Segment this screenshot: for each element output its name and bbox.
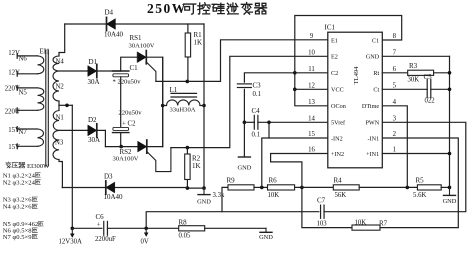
svg-text:56K: 56K xyxy=(335,192,347,199)
wire pin8 top loop xyxy=(295,16,402,106)
svg-text:R4: R4 xyxy=(334,177,343,185)
wire N1/N3 tap to D2 xyxy=(59,129,105,131)
wire RS2 anode wire xyxy=(105,146,162,148)
svg-text:D1: D1 xyxy=(89,58,98,66)
svg-text:0.05: 0.05 xyxy=(179,233,191,240)
wire 0V node up and feedback rail xyxy=(146,212,319,229)
wire R8 right to GND xyxy=(205,227,266,229)
winding N6 bottom tap 12V xyxy=(17,73,37,75)
svg-text:N6: N6 xyxy=(19,56,28,63)
svg-text:-IN2: -IN2 xyxy=(331,135,343,142)
capacitor C3 xyxy=(237,83,251,85)
wire R9 branch xyxy=(222,187,228,211)
svg-text:0V: 0V xyxy=(141,239,149,246)
wire RS1 gate to pin9 net xyxy=(156,40,328,82)
capacitor C2 xyxy=(113,127,129,130)
svg-text:GND: GND xyxy=(443,198,457,205)
svg-text:30A: 30A xyxy=(88,136,100,144)
winding N7 top tap 15V xyxy=(17,128,37,130)
winding N7 coil xyxy=(38,129,44,146)
wire battery node to C6 xyxy=(72,227,102,229)
wire center tap down to battery node xyxy=(71,105,73,228)
svg-text:1K: 1K xyxy=(192,162,201,170)
svg-text:Rt: Rt xyxy=(373,70,379,77)
wire pin16 jog to R6/R4 node xyxy=(271,154,328,188)
wire L1 left vertical xyxy=(162,57,164,146)
svg-text:RS1: RS1 xyxy=(130,34,143,42)
svg-text:3: 3 xyxy=(393,116,397,123)
wire R1 bottom xyxy=(187,57,189,81)
wire R1 top xyxy=(187,24,189,33)
capacitor C6 xyxy=(103,221,105,235)
svg-text:5.6K: 5.6K xyxy=(413,192,426,199)
resistor R8 xyxy=(179,226,205,231)
winding N6 top tap 12V xyxy=(17,55,37,57)
svg-text:OCon: OCon xyxy=(331,103,346,110)
resistor R3 xyxy=(408,70,434,75)
svg-text:R6: R6 xyxy=(269,177,278,185)
junction R2 top xyxy=(186,146,190,150)
inductor L1 coil xyxy=(167,100,201,106)
svg-text:7: 7 xyxy=(393,50,397,57)
wire C1 node up to RS1 anode xyxy=(121,57,138,71)
winding N7 bottom tap 15V xyxy=(17,145,37,147)
svg-text:N1: N1 xyxy=(56,115,64,122)
svg-text:022: 022 xyxy=(425,98,436,105)
svg-text:10K: 10K xyxy=(355,220,367,227)
svg-text:N5: N5 xyxy=(19,89,28,96)
svg-text:GND: GND xyxy=(197,199,211,206)
svg-text:12V30A: 12V30A xyxy=(59,238,83,245)
svg-text:2: 2 xyxy=(393,131,397,138)
wire pin7 GND stub xyxy=(382,55,449,57)
wire R2 bottom to GND bus xyxy=(187,187,204,189)
wire C4 left stub xyxy=(244,121,254,123)
capacitor C4 xyxy=(253,115,255,129)
wire pin12 stub xyxy=(295,88,328,90)
svg-text:N4: N4 xyxy=(56,58,65,65)
svg-text:N3 φ3.2×6: N3 φ3.2×6 xyxy=(3,197,32,204)
junction 0V node xyxy=(144,227,148,231)
svg-text:6: 6 xyxy=(393,66,397,73)
junction R9/R6 node xyxy=(260,186,264,190)
wire RS1 cathode down xyxy=(146,57,162,146)
svg-text:C3: C3 xyxy=(253,82,262,90)
junction C5/GND line xyxy=(448,88,452,92)
ground GND right of R8 xyxy=(265,228,267,232)
junction C4 right branch xyxy=(267,121,271,125)
svg-text:C6: C6 xyxy=(96,213,105,221)
op-amp U1 IC1 TL494 box xyxy=(328,32,383,168)
svg-text:12V: 12V xyxy=(8,70,20,77)
svg-text:PWN: PWN xyxy=(365,120,379,127)
svg-text:C7: C7 xyxy=(317,196,326,204)
wire pin15 to R9/R6 node xyxy=(262,138,328,187)
winding N5 coil xyxy=(38,88,44,110)
svg-text:D2: D2 xyxy=(88,116,97,124)
junction 12V30A node xyxy=(71,227,75,231)
junction L1 left xyxy=(161,104,165,108)
svg-text:+ C2: + C2 xyxy=(122,121,136,128)
thyristor RS2 xyxy=(138,141,147,152)
terminal 0V arrow xyxy=(145,228,147,235)
resistor R1 xyxy=(185,33,190,57)
wire R3 right xyxy=(434,72,450,74)
junction center tap corner xyxy=(65,104,69,108)
svg-text:R9: R9 xyxy=(227,177,236,185)
resistor R6 xyxy=(268,185,295,190)
svg-text:15V: 15V xyxy=(8,144,20,151)
svg-text:10K: 10K xyxy=(268,192,280,199)
wire C1 to C2 xyxy=(120,77,122,128)
svg-text:220u50v: 220u50v xyxy=(119,110,143,117)
ground main GND below bus xyxy=(203,188,205,195)
resistor R9 xyxy=(228,185,254,190)
svg-text:C1: C1 xyxy=(130,64,139,72)
svg-text:15: 15 xyxy=(308,131,315,138)
svg-text:8: 8 xyxy=(393,33,397,40)
winding N2 coil xyxy=(53,71,59,101)
svg-text:N1 φ3.2×24: N1 φ3.2×24 xyxy=(3,172,36,179)
svg-text:EI300W: EI300W xyxy=(27,163,50,170)
resistor R5 xyxy=(417,185,441,190)
svg-text:4: 4 xyxy=(393,99,397,106)
wire D3 anode wire xyxy=(62,187,187,189)
winding N5 top tap 220V xyxy=(17,87,37,89)
svg-text:C5: C5 xyxy=(424,73,433,81)
wire R6/R4 node down to R7 xyxy=(302,187,352,227)
svg-text:30A: 30A xyxy=(88,78,100,86)
svg-text:3.3k: 3.3k xyxy=(213,192,225,199)
capacitor C5 xyxy=(426,80,428,98)
wire R4 to R5 xyxy=(359,186,417,188)
svg-text:0.1: 0.1 xyxy=(252,132,261,139)
wire pin11 to C3 xyxy=(244,73,327,82)
ground GND below C3/C4 xyxy=(243,156,245,158)
svg-text:C2: C2 xyxy=(331,70,338,77)
svg-text:0.1: 0.1 xyxy=(253,91,262,98)
label transformer spec EI300W xyxy=(6,162,51,170)
svg-text:250W: 250W xyxy=(147,1,187,16)
svg-text:30A100V: 30A100V xyxy=(129,42,155,49)
svg-text:N3: N3 xyxy=(55,140,64,147)
wire right GND vertical xyxy=(449,56,451,188)
svg-text:EI1: EI1 xyxy=(40,47,51,55)
winding N3 coil xyxy=(53,130,59,159)
svg-text:1: 1 xyxy=(393,147,396,154)
capacitor C1 xyxy=(113,70,129,72)
svg-text:+IN2: +IN2 xyxy=(331,151,344,158)
svg-text:Ct: Ct xyxy=(373,87,379,94)
wire N4/N2 tap to C1 node xyxy=(59,70,121,72)
wire N4 top tap to D4 rail xyxy=(59,24,65,56)
wire N3 bottom tap down xyxy=(59,160,62,188)
title text 250W thyristor inverter xyxy=(147,1,267,16)
wire C7 right to pin3 net xyxy=(324,122,466,211)
svg-text:16: 16 xyxy=(308,147,315,154)
wire R2 bottom xyxy=(186,180,188,189)
wire GND bus vertical xyxy=(203,24,205,188)
diode D4 xyxy=(107,19,116,30)
svg-text:GND: GND xyxy=(237,165,251,172)
svg-text:-IN1: -IN1 xyxy=(368,135,380,142)
svg-text:E2: E2 xyxy=(331,54,338,61)
resistor R7 xyxy=(352,225,380,230)
junction R6/R4 node xyxy=(300,186,304,190)
svg-text:DTime: DTime xyxy=(362,103,380,110)
svg-text:2200uF: 2200uF xyxy=(95,236,116,243)
resistor R4 xyxy=(333,185,359,190)
wire R6 to R4 xyxy=(295,186,334,188)
capacitor C7 xyxy=(320,205,322,218)
svg-text:C1: C1 xyxy=(372,37,379,44)
diode D2 xyxy=(88,125,97,136)
junction GND bus bottom xyxy=(202,186,206,190)
winding N4 coil xyxy=(53,56,59,71)
svg-text:D3: D3 xyxy=(104,173,113,181)
wire C5 right xyxy=(431,88,450,90)
svg-text:TL494: TL494 xyxy=(353,66,360,84)
svg-text:33uH30A: 33uH30A xyxy=(170,107,196,114)
svg-text:* 220u50v: * 220u50v xyxy=(113,79,142,86)
wire L1 left stub xyxy=(163,105,167,107)
junction C2 bottom on RS2 wire xyxy=(119,145,123,149)
svg-text:R7: R7 xyxy=(379,220,388,228)
thyristor RS1 xyxy=(137,52,146,63)
junction R2 bottom xyxy=(186,186,190,190)
svg-text:30A100V: 30A100V xyxy=(113,156,139,163)
svg-text:N7: N7 xyxy=(19,129,28,136)
junction R1 bottom xyxy=(186,80,190,84)
svg-text:103: 103 xyxy=(317,221,328,228)
svg-text:N4 φ3.2×6: N4 φ3.2×6 xyxy=(3,204,32,211)
winding N6 coil xyxy=(38,56,44,74)
svg-text:N2 φ3.2×24: N2 φ3.2×24 xyxy=(3,179,36,186)
ground GND below R5 xyxy=(449,188,451,196)
svg-text:E1: E1 xyxy=(331,37,338,44)
svg-text:L1: L1 xyxy=(170,86,178,94)
svg-text:+: + xyxy=(97,222,101,229)
svg-text:10: 10 xyxy=(308,50,315,57)
svg-text:1K: 1K xyxy=(194,39,203,47)
svg-text:30K: 30K xyxy=(408,77,420,84)
svg-text:R5: R5 xyxy=(416,177,425,185)
wire R2 top stub xyxy=(186,148,188,154)
wire center tap xyxy=(59,104,72,106)
wire C3 down GND line xyxy=(243,89,245,155)
winding N5 bottom tap 220U xyxy=(17,109,37,111)
junction GND bus / L1 right xyxy=(202,104,206,108)
wire C6 to 0V node xyxy=(107,227,178,229)
svg-text:12: 12 xyxy=(308,83,315,90)
wire C4 right to pin14 xyxy=(258,121,328,123)
svg-text:D4: D4 xyxy=(105,9,114,17)
junction pin1/GND line xyxy=(448,152,452,156)
svg-text:N7 φ0.5×9: N7 φ0.5×9 xyxy=(3,234,32,241)
svg-text:N2: N2 xyxy=(56,83,65,90)
diode D1 xyxy=(88,66,97,77)
wire RS2 gate to pin10 net xyxy=(171,56,328,147)
svg-text:5Vref: 5Vref xyxy=(331,120,346,127)
wire R5 right to GND line xyxy=(441,186,449,188)
svg-text:R3: R3 xyxy=(409,62,418,70)
wire L1 right stub xyxy=(200,105,204,107)
svg-text:VCC: VCC xyxy=(331,87,344,94)
junction C4 left on GND line xyxy=(243,121,247,125)
wire R9 to R6 xyxy=(254,186,268,188)
svg-text:GND: GND xyxy=(366,54,380,61)
inductor L1 core bars xyxy=(171,92,197,94)
svg-text:9: 9 xyxy=(310,33,314,40)
transformer EI1 core xyxy=(45,50,47,166)
svg-text:11: 11 xyxy=(308,66,315,73)
junction pin11 VCC rail xyxy=(293,71,297,75)
wire pin4 to R4/R5 node xyxy=(382,106,407,188)
wire R7 right up to pin2 xyxy=(380,138,458,228)
svg-text:R8: R8 xyxy=(179,219,188,227)
svg-text:14: 14 xyxy=(308,116,315,123)
svg-text:13: 13 xyxy=(308,99,315,106)
svg-text:10A40: 10A40 xyxy=(104,193,124,201)
wire pin1 to GND line xyxy=(382,153,449,155)
svg-text:IC1: IC1 xyxy=(325,24,336,32)
junction R5 right GND xyxy=(448,186,452,190)
svg-text:C4: C4 xyxy=(252,107,261,115)
svg-text:220U: 220U xyxy=(5,108,20,115)
diode D3 xyxy=(106,182,115,193)
junction VCC/pin12 xyxy=(293,88,297,92)
wire C4 branch down to pin15 wire xyxy=(268,122,270,138)
junction R4/R5 pin4 node xyxy=(406,186,410,190)
wire pin6 to R3 xyxy=(382,72,407,74)
wire top rail xyxy=(65,23,204,25)
wire C2 to RS2 anode wire xyxy=(120,133,122,147)
terminal 12V30A arrow xyxy=(71,228,73,236)
wire pin5 to C5 xyxy=(382,88,427,90)
svg-text:GND: GND xyxy=(259,234,273,241)
svg-text:10A40: 10A40 xyxy=(104,31,124,39)
svg-text:5: 5 xyxy=(393,83,397,90)
winding N1 coil xyxy=(58,105,60,110)
wire D2 cathode down to RS2 anode wire xyxy=(104,130,106,146)
junction R3/GND line xyxy=(448,71,452,75)
svg-text:+IN1: +IN1 xyxy=(366,151,379,158)
resistor R2 xyxy=(185,154,190,180)
